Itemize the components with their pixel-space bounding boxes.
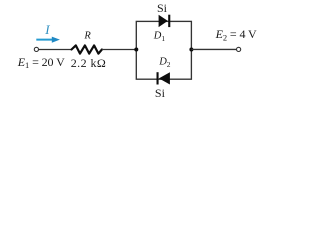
node junction right: [189, 48, 193, 52]
wire output: [191, 48, 236, 50]
node E1 terminal: [34, 47, 38, 51]
svg-text:I: I: [44, 22, 50, 37]
svg-text:Si: Si: [155, 86, 166, 100]
resistor R zigzag: [72, 45, 102, 53]
current arrow I: [36, 37, 60, 43]
svg-text:2.2 kΩ: 2.2 kΩ: [71, 56, 107, 70]
svg-text:E1 = 20 V: E1 = 20 V: [17, 55, 65, 70]
svg-text:D1: D1: [153, 31, 166, 43]
svg-text:D2: D2: [158, 57, 171, 69]
svg-text:E2 = 4 V: E2 = 4 V: [215, 27, 257, 42]
node junction left: [134, 48, 138, 52]
svg-text:R: R: [83, 31, 91, 42]
svg-text:Si: Si: [157, 1, 168, 15]
diode D1: [159, 15, 171, 27]
wire main horizontal left: [39, 49, 72, 51]
node E2 terminal: [237, 47, 241, 51]
wire main horizontal right: [102, 49, 137, 51]
diode D2: [157, 72, 170, 84]
wire loop rectangle: [136, 21, 191, 79]
